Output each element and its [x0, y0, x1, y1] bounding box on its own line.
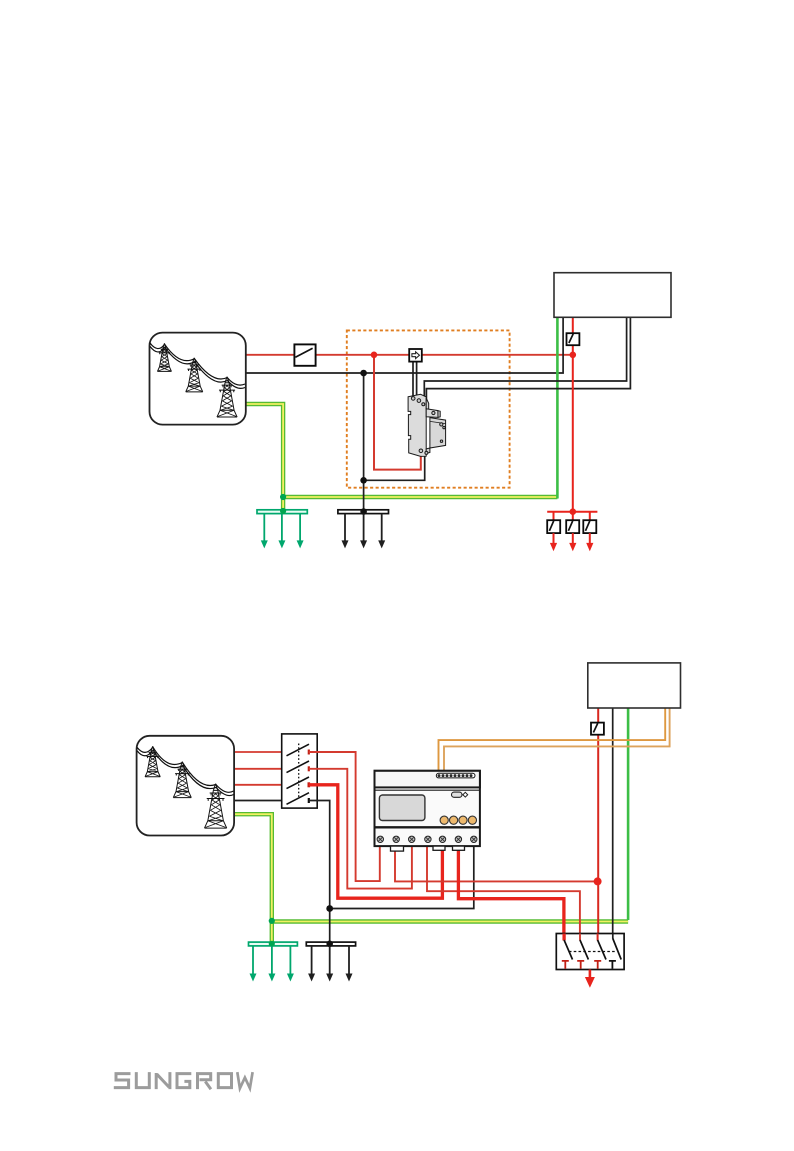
wire N (black) grid to inverter riser: [246, 317, 563, 373]
wire meter T2 out to junction: [395, 846, 598, 881]
wire black pair relay to inverter (RS485): [424, 317, 626, 402]
PE junction green dots: [280, 494, 286, 500]
contactor load red arrow: [589, 970, 592, 978]
fuse F2 on inverter L wire: [567, 333, 580, 345]
SUNGROW logo: [114, 1072, 253, 1089]
conductor catenary lines: [150, 343, 245, 385]
PE arrows teal: [261, 514, 304, 549]
junction N black dot: [326, 905, 333, 912]
red stubs to load fuses: [554, 512, 590, 521]
wire L (red) grid to inverter drop: [246, 354, 573, 356]
utility grid box 2: [137, 736, 235, 836]
wire L red loop to relay bottom terminal: [374, 355, 421, 470]
PE busbar 2 (teal): [249, 942, 298, 946]
breaker linkage dotted line: [298, 744, 300, 799]
inverter box 2: [588, 663, 681, 708]
conductor catenary lines 2: [137, 747, 233, 792]
junction red dot at inverter drop: [570, 352, 577, 359]
N arrows black 2: [308, 946, 352, 982]
tower 1: [157, 343, 171, 371]
junction PE green dot upper: [269, 918, 275, 924]
wire L3 thick breaker to meter T5: [309, 785, 443, 898]
junction PE green dot on busbar: [269, 941, 275, 947]
tower 2: [186, 358, 203, 392]
wire red inverter drop to AC bus: [572, 317, 574, 511]
utility grid box 1: [150, 333, 246, 425]
current-direction arrow box: [409, 349, 422, 362]
wire N grid to breaker: [234, 800, 286, 802]
contactor box (4P): [556, 934, 624, 970]
wire meter T6 out thick to contactor pole1: [458, 846, 564, 939]
load fuse diagonals: [549, 521, 589, 531]
wire RS485 orange A: [439, 708, 666, 771]
tower 3: [217, 377, 237, 417]
N busbar (black): [338, 510, 389, 514]
tower 2 (diagram2): [173, 762, 191, 798]
wire L2 breaker to meter T3: [309, 769, 412, 889]
wire black relay bottom to N: [364, 455, 425, 481]
AC loads red bus: [547, 511, 597, 513]
tower 1 (diagram2): [145, 746, 160, 776]
meter mounting tabs: [391, 846, 465, 851]
wire inverter L red drop to contactor pole3: [597, 708, 599, 940]
wire N breaker down to busbar: [309, 801, 330, 943]
meter terminal screws: [377, 836, 477, 842]
wire L1 breaker to meter T1: [309, 752, 380, 881]
junction N black dot on grid wire: [360, 370, 367, 377]
breaker box (4P switch): [282, 734, 318, 808]
wire L3 grid to breaker: [234, 784, 286, 786]
wire N to meter T7: [330, 846, 474, 908]
PE arrows teal 2: [250, 946, 294, 982]
wire PE green-yellow from grid: [246, 404, 558, 511]
energy meter (DTSU): [375, 771, 480, 851]
N arrows black: [342, 514, 386, 549]
wire inverter N black drop to contactor pole4: [612, 708, 614, 940]
N busbar 2 (black): [306, 942, 355, 946]
breaker contact ticks: [308, 750, 310, 755]
tower 3 (diagram2): [205, 784, 227, 828]
N bus junction dot: [360, 508, 367, 515]
wire PE green-yellow grid leg: [234, 814, 628, 944]
dashed meter-cabinet boundary box: [347, 330, 510, 487]
fuse F3 on inverter L wire: [591, 723, 604, 735]
wire L2 grid to breaker: [234, 768, 286, 770]
contactor pole input stubs: [562, 934, 565, 941]
fuse F1 on grid L wire: [294, 344, 315, 365]
junction N black dot lower: [360, 477, 367, 484]
wire L1 grid to breaker: [234, 751, 286, 753]
red bus junction dot: [570, 508, 577, 515]
wire PE solid green inverter vertical: [556, 317, 559, 498]
contactor lower contacts: [562, 961, 616, 969]
red load arrows: [550, 533, 594, 551]
inverter box 1: [554, 273, 671, 318]
breaker switch blades: [287, 744, 310, 804]
wire N black drop to PEN busbar: [363, 373, 365, 511]
wire PE solid green inverter leg: [627, 708, 630, 920]
contactor linkage dotted: [569, 951, 617, 953]
wire meter T4 out to contactor pole2: [427, 846, 580, 939]
junction red dot (meter out / inverter / load): [594, 877, 602, 885]
N bus 2 junction dot: [326, 941, 333, 948]
wire thin verticals arrow-box to relay top: [413, 359, 417, 398]
PE busbar (teal): [257, 510, 307, 514]
wire RS485 orange B: [444, 708, 670, 771]
junction L red dot in dashed box: [371, 352, 378, 359]
relay / ripple control receiver (isometric DIN device): [408, 394, 446, 456]
contactor blades: [564, 939, 621, 960]
load fuse boxes: [547, 520, 596, 533]
